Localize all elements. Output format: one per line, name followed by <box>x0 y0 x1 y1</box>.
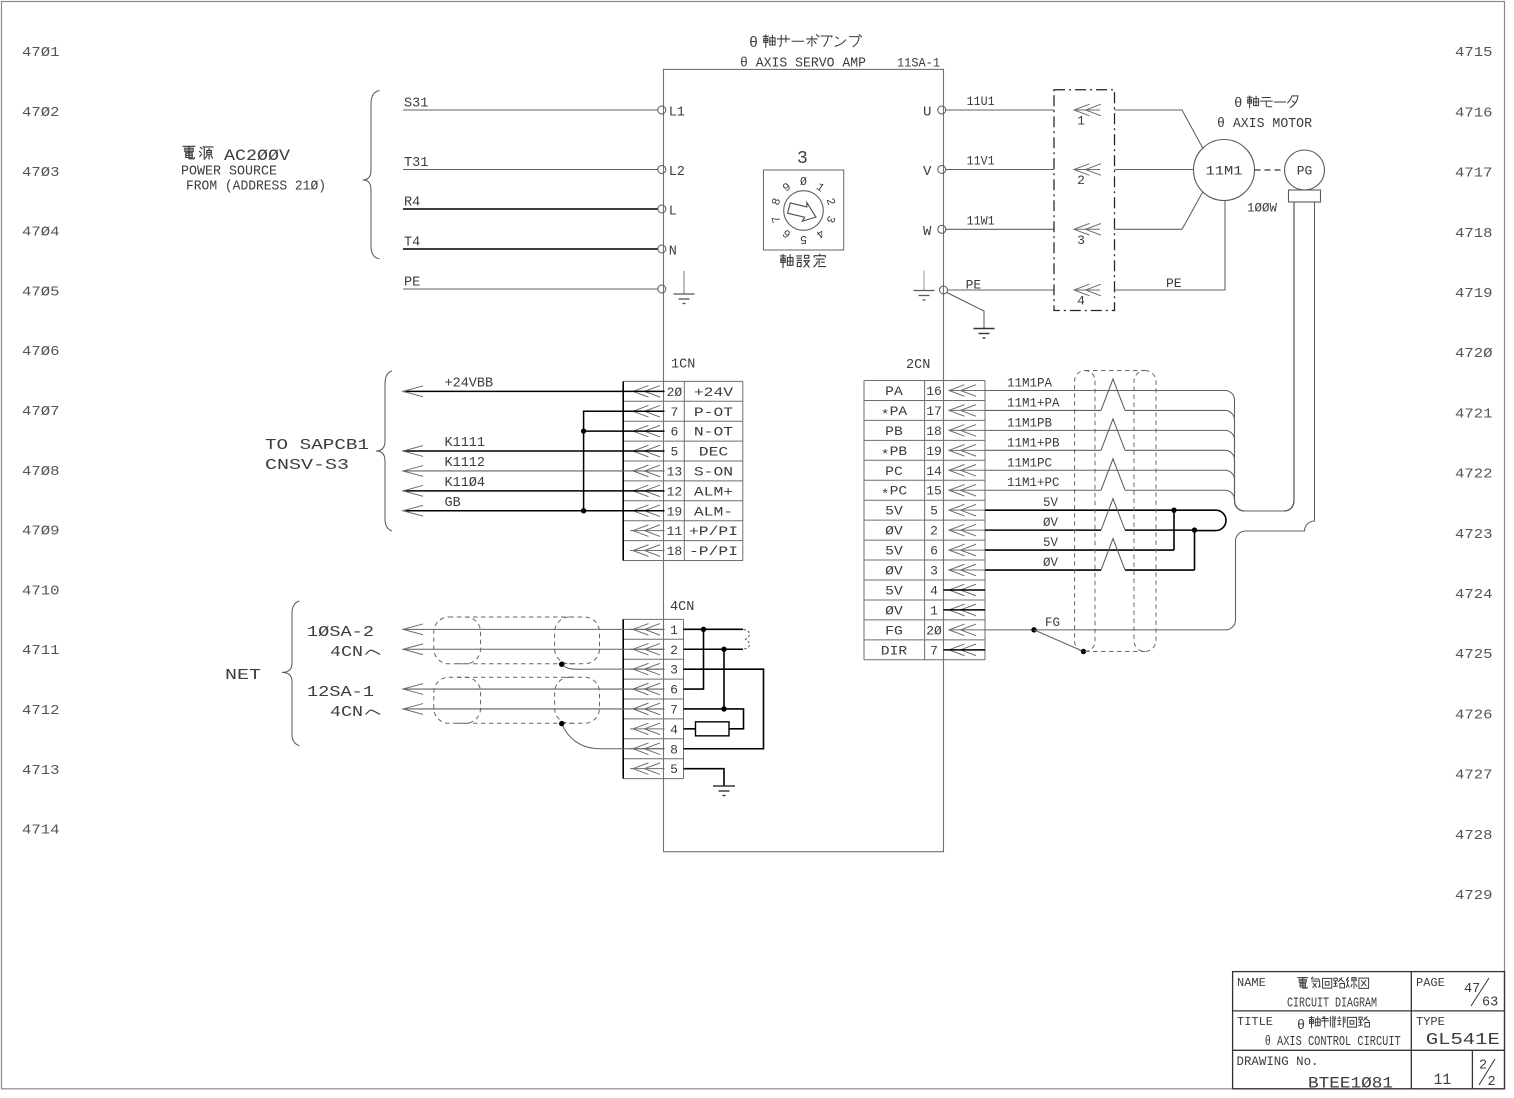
terminating resistor <box>696 722 730 736</box>
ground symbol at amp input PE <box>674 271 695 304</box>
svg-text:TO SAPCB1: TO SAPCB1 <box>265 437 369 454</box>
svg-text:POWER SOURCE: POWER SOURCE <box>181 165 277 180</box>
svg-text:θ: θ <box>1297 1019 1305 1034</box>
terminal N <box>658 245 666 253</box>
svg-text:AC2ØØV: AC2ØØV <box>224 147 291 165</box>
shield pair1 drain to pin3 <box>562 665 665 670</box>
1CN pin 13 S-ON <box>630 464 733 479</box>
wire NET pair1 line B <box>403 648 665 650</box>
svg-text:1: 1 <box>670 623 678 638</box>
wire pin2 continuation <box>684 648 744 650</box>
svg-text:TITLE: TITLE <box>1237 1015 1273 1029</box>
loop pin3 to pin8 <box>684 669 764 749</box>
svg-text:4: 4 <box>670 722 678 737</box>
rotary switch label axis setting <box>780 254 793 267</box>
svg-text:4728: 4728 <box>1455 828 1493 844</box>
svg-text:Ø: Ø <box>800 176 807 189</box>
svg-text:4723: 4723 <box>1455 527 1493 543</box>
wire NET pair2 line A <box>403 688 665 690</box>
svg-text:GL541E: GL541E <box>1426 1030 1500 1049</box>
wire NET pair1 line A <box>403 628 665 630</box>
wire PE to motor connector <box>948 289 1055 291</box>
4CN pin 6 <box>630 683 678 698</box>
2CN pin 2 ØV <box>885 524 985 539</box>
svg-text:5V: 5V <box>885 583 903 598</box>
shield pair2 dot <box>559 721 564 726</box>
svg-text:ALM+: ALM+ <box>694 484 733 499</box>
svg-text:47Ø4: 47Ø4 <box>22 225 60 241</box>
2CN pin 7 DIR <box>881 643 985 658</box>
svg-text:3: 3 <box>670 663 678 678</box>
svg-text:4713: 4713 <box>22 763 60 779</box>
junction dot pin7 <box>721 706 726 711</box>
ground connection from PE terminal <box>947 293 984 329</box>
svg-text:TYPE: TYPE <box>1416 1015 1445 1029</box>
svg-text:11: 11 <box>667 524 683 539</box>
title block TITLE cell <box>1237 1015 1401 1050</box>
svg-text:1CN: 1CN <box>671 358 695 373</box>
svg-text:L1: L1 <box>669 106 685 121</box>
svg-text:θ AXIS CONTROL CIRCUIT: θ AXIS CONTROL CIRCUIT <box>1265 1035 1401 1050</box>
wire K1111 from 1CN <box>403 450 665 452</box>
label 10SA-2 4CN <box>307 624 380 661</box>
motor label Japanese theta-axis motor <box>1234 96 1298 112</box>
svg-text:4721: 4721 <box>1455 406 1493 422</box>
svg-text:ØV: ØV <box>1043 516 1059 530</box>
shield pair1 dot <box>559 662 564 667</box>
svg-text:47Ø2: 47Ø2 <box>22 105 60 121</box>
svg-text:2CN: 2CN <box>906 358 930 373</box>
svg-text:4711: 4711 <box>22 643 60 659</box>
svg-text:11M1PA: 11M1PA <box>1007 376 1053 390</box>
svg-text:11M1+PA: 11M1+PA <box>1007 396 1060 410</box>
svg-text:472Ø: 472Ø <box>1455 346 1493 362</box>
terminal PE left with ground <box>658 285 666 293</box>
title block PAGE cell <box>1416 976 1498 1011</box>
svg-text:5: 5 <box>930 504 938 519</box>
svg-text:63: 63 <box>1482 996 1498 1011</box>
NET cable shield pair2 <box>434 677 600 723</box>
svg-text:3: 3 <box>797 149 808 169</box>
svg-text:7: 7 <box>670 702 678 717</box>
svg-text:2: 2 <box>1488 1075 1496 1090</box>
wire NET pair2 line B <box>403 708 665 710</box>
encoder cable shield dashed <box>1075 371 1156 652</box>
4CN pin 8 <box>630 742 678 757</box>
svg-text:PC: PC <box>885 464 903 479</box>
twisted pair symbols <box>1101 379 1125 570</box>
servo amp box 11SA-1 <box>664 69 944 851</box>
junction dot pin1 <box>701 627 706 632</box>
NET cable shield pair1 <box>434 617 600 664</box>
svg-text:47Ø1: 47Ø1 <box>22 45 60 61</box>
svg-text:47Ø5: 47Ø5 <box>22 284 60 300</box>
svg-text:CIRCUIT DIAGRAM: CIRCUIT DIAGRAM <box>1287 997 1377 1012</box>
svg-text:11M1+PC: 11M1+PC <box>1007 476 1060 490</box>
svg-text:CNSV-S3: CNSV-S3 <box>265 457 349 474</box>
svg-text:+24V: +24V <box>694 385 733 400</box>
svg-text:7: 7 <box>930 643 938 658</box>
svg-text:4717: 4717 <box>1455 166 1493 182</box>
wire connector to motor W phase <box>1115 192 1204 230</box>
svg-text:1ØØW: 1ØØW <box>1247 201 1277 216</box>
svg-text:S-ON: S-ON <box>694 464 733 479</box>
svg-text:2Ø: 2Ø <box>926 623 942 638</box>
svg-text:4726: 4726 <box>1455 707 1493 723</box>
svg-text:17: 17 <box>926 404 942 419</box>
svg-text:V: V <box>923 164 932 180</box>
junction dot N-OT <box>581 428 586 433</box>
svg-text:47Ø3: 47Ø3 <box>22 165 60 181</box>
svg-text:19: 19 <box>926 444 942 459</box>
terminal L <box>658 205 666 213</box>
jumper pin2 to pin7 <box>723 649 725 709</box>
svg-text:NAME: NAME <box>1237 976 1266 990</box>
svg-text:47Ø6: 47Ø6 <box>22 344 60 360</box>
svg-text:NET: NET <box>225 667 261 684</box>
svg-text:W: W <box>923 224 932 240</box>
svg-text:15: 15 <box>926 484 942 499</box>
4CN pin 4 <box>630 722 678 737</box>
1CN pin 7 P-OT <box>630 405 733 420</box>
svg-text:PE: PE <box>404 276 420 291</box>
svg-text:4CN: 4CN <box>330 644 363 661</box>
1CN pin 19 ALM- <box>630 504 733 519</box>
svg-text:ØV: ØV <box>1043 556 1059 570</box>
svg-text:FG: FG <box>1045 616 1060 630</box>
svg-text:θ: θ <box>1234 96 1242 112</box>
wire K11Ø4 from 1CN <box>403 490 665 492</box>
motor connector pin 1 <box>1074 104 1101 128</box>
wire T31 to amp <box>403 169 658 171</box>
1CN pin 11 +P/PI <box>630 524 738 539</box>
2CN pin 4 5V <box>885 583 985 598</box>
svg-text:4712: 4712 <box>22 703 60 719</box>
svg-text:16: 16 <box>926 384 942 399</box>
svg-text:2Ø: 2Ø <box>667 385 683 400</box>
svg-text:11W1: 11W1 <box>967 213 995 228</box>
svg-text:K1112: K1112 <box>445 456 486 471</box>
svg-text:11: 11 <box>1434 1071 1452 1089</box>
svg-text:4710: 4710 <box>22 583 60 599</box>
wire connector to motor U phase <box>1115 110 1204 149</box>
svg-text:5V: 5V <box>885 504 903 519</box>
svg-text:6: 6 <box>670 425 678 440</box>
2CN pin 19 *PB <box>881 444 985 463</box>
svg-text:1ØSA-2: 1ØSA-2 <box>307 624 374 641</box>
wire T4 to amp <box>403 248 658 250</box>
wire PE to amp <box>403 288 658 290</box>
svg-text:4715: 4715 <box>1455 45 1493 61</box>
4CN pin 3 <box>630 663 678 678</box>
wire K1112 from 1CN <box>403 470 665 472</box>
svg-text:FG: FG <box>885 623 903 638</box>
title block <box>1233 972 1505 1089</box>
svg-text:2: 2 <box>670 643 678 658</box>
svg-text:4727: 4727 <box>1455 768 1493 784</box>
motor connector pin 3 <box>1074 224 1101 248</box>
wire pin4 to resistor <box>684 728 696 730</box>
1CN pin 12 ALM+ <box>630 484 733 499</box>
svg-text:11V1: 11V1 <box>967 154 995 169</box>
wire connector to motor PE <box>1115 201 1226 290</box>
connector 1CN table <box>623 381 743 560</box>
1CN pin 6 N-OT <box>630 425 733 440</box>
svg-text:θ: θ <box>749 35 758 52</box>
svg-text:11M1: 11M1 <box>1206 164 1243 179</box>
wire S31 to amp <box>403 109 658 111</box>
encoder PG circle <box>1285 150 1325 190</box>
svg-text:5V: 5V <box>1043 536 1059 550</box>
wire P-OT jumper <box>584 411 665 511</box>
svg-text:ØV: ØV <box>885 524 903 539</box>
svg-text:6: 6 <box>930 544 938 559</box>
svg-text:4722: 4722 <box>1455 467 1493 483</box>
shield connection dot <box>1081 649 1086 654</box>
junction dot FG <box>1031 627 1036 632</box>
svg-text:47Ø8: 47Ø8 <box>22 464 60 480</box>
brace TO SAPCB1 <box>376 371 392 531</box>
2CN pin 1 ØV <box>885 603 985 618</box>
jumper pin1 to pin6 <box>684 629 704 689</box>
svg-text:4714: 4714 <box>22 823 60 839</box>
svg-text:FROM (ADDRESS 21Ø): FROM (ADDRESS 21Ø) <box>186 180 326 195</box>
svg-text:47Ø7: 47Ø7 <box>22 404 60 420</box>
svg-text:2: 2 <box>930 524 938 539</box>
wire N-OT jumper <box>584 430 665 432</box>
junction dot ALM- <box>581 508 586 513</box>
title block TYPE cell <box>1416 1015 1500 1049</box>
title block sheet 2/2 <box>1479 1059 1496 1091</box>
1CN pin 2Ø +24V <box>630 385 733 400</box>
svg-text:L: L <box>669 205 677 220</box>
svg-text:5: 5 <box>800 232 807 245</box>
wire pin1 continuation with break <box>684 628 744 630</box>
svg-text:PG: PG <box>1297 164 1313 179</box>
svg-text:θ AXIS MOTOR: θ AXIS MOTOR <box>1217 117 1312 132</box>
svg-text:47Ø9: 47Ø9 <box>22 524 60 540</box>
4CN pin 1 <box>630 623 678 638</box>
svg-text:S31: S31 <box>404 97 428 112</box>
2CN pin 6 5V <box>885 544 985 559</box>
4CN pin 7 <box>630 702 678 717</box>
svg-text:DRAWING No.: DRAWING No. <box>1237 1055 1319 1069</box>
svg-text:+24VBB: +24VBB <box>445 376 494 391</box>
svg-text:5V: 5V <box>885 544 903 559</box>
svg-text:4718: 4718 <box>1455 226 1493 242</box>
svg-text:11M1PC: 11M1PC <box>1007 456 1052 470</box>
wire connector to motor V phase <box>1115 169 1194 171</box>
svg-text:P-OT: P-OT <box>694 405 733 420</box>
wire R4 to amp <box>403 208 658 210</box>
ground symbol left of PE terminal <box>914 271 935 301</box>
junction dot 5V <box>1171 507 1176 512</box>
4CN pin 5 <box>630 762 678 777</box>
title block NAME cell <box>1237 976 1377 1012</box>
svg-text:5: 5 <box>670 445 678 460</box>
svg-text:12: 12 <box>667 484 683 499</box>
2CN pin 2Ø FG <box>885 623 985 638</box>
2CN pin 5 5V <box>885 504 985 519</box>
junction dot 0V <box>1192 527 1197 532</box>
svg-text:3: 3 <box>1077 233 1085 248</box>
svg-text:1: 1 <box>1077 114 1085 129</box>
motor connector pin 2 <box>1074 164 1101 188</box>
svg-text:5V: 5V <box>1043 496 1059 510</box>
rotary switch dial digits <box>770 176 837 245</box>
right margin line numbers 4715-4729 <box>1455 45 1493 904</box>
wire pin5 to ground <box>684 769 725 786</box>
svg-text:R4: R4 <box>404 196 420 211</box>
ground symbol below PE <box>974 329 995 339</box>
svg-text:PAGE: PAGE <box>1416 976 1445 990</box>
shield pair2 drain to pin8 <box>562 724 665 749</box>
svg-text:-P/PI: -P/PI <box>689 544 738 559</box>
svg-text:1: 1 <box>930 603 938 618</box>
svg-text:ØV: ØV <box>885 603 903 618</box>
terminal L2 <box>658 166 666 174</box>
svg-text:7: 7 <box>670 405 678 420</box>
encoder terminal box <box>1289 190 1321 202</box>
svg-text:T31: T31 <box>404 156 428 171</box>
wire +24VBB from 1CN <box>403 390 665 392</box>
motor 11M1 circle <box>1194 140 1255 201</box>
jumper 5V pin5 to pin6 <box>1173 510 1175 550</box>
svg-text:DIR: DIR <box>881 643 908 658</box>
svg-text:K11Ø4: K11Ø4 <box>445 476 486 491</box>
svg-text:4CN: 4CN <box>670 600 694 615</box>
svg-text:8: 8 <box>670 742 678 757</box>
brace NET <box>282 601 299 746</box>
cable break squiggle <box>744 629 750 649</box>
svg-text:4724: 4724 <box>1455 587 1493 603</box>
junction dot pin2 <box>721 647 726 652</box>
title block DRAWING No cell <box>1237 1055 1394 1093</box>
rotary switch arrow pointing to 3 <box>786 197 820 225</box>
svg-text:U: U <box>923 105 931 121</box>
svg-text:19: 19 <box>667 504 683 519</box>
svg-text:4719: 4719 <box>1455 286 1493 302</box>
motor connector pin 4 <box>1074 284 1101 308</box>
svg-text:12SA-1: 12SA-1 <box>307 684 374 701</box>
motor connector dash-dot box <box>1054 90 1115 311</box>
svg-text:4CN: 4CN <box>330 704 363 721</box>
power source label <box>181 146 326 194</box>
rotary switch S1 body <box>763 170 843 250</box>
label TO SAPCB1 CNSV-S3 <box>265 437 369 474</box>
svg-text:18: 18 <box>667 544 683 559</box>
svg-text:11U1: 11U1 <box>967 94 995 109</box>
2CN pin 3 ØV <box>885 564 985 579</box>
2CN pin 17 *PA <box>881 404 985 423</box>
svg-text:N: N <box>669 245 677 260</box>
svg-text:DEC: DEC <box>699 445 729 460</box>
power source brace <box>363 91 380 259</box>
1CN pin 5 DEC <box>630 445 728 460</box>
svg-text:L2: L2 <box>669 165 685 180</box>
svg-text:K1111: K1111 <box>445 436 486 451</box>
svg-text:11M1PB: 11M1PB <box>1007 416 1053 430</box>
terminal L1 <box>658 106 666 114</box>
1CN pin 18 -P/PI <box>630 544 738 559</box>
svg-text:N-OT: N-OT <box>694 425 733 440</box>
svg-text:+P/PI: +P/PI <box>689 524 738 539</box>
svg-text:3: 3 <box>930 564 938 579</box>
svg-text:2: 2 <box>1077 173 1085 188</box>
svg-text:BTEE1Ø81: BTEE1Ø81 <box>1308 1075 1393 1093</box>
svg-text:PA: PA <box>885 384 903 399</box>
2CN pin 16 PA <box>885 384 985 399</box>
4CN pin 2 <box>630 643 678 658</box>
svg-text:ALM-: ALM- <box>694 504 733 519</box>
svg-text:PB: PB <box>885 424 903 439</box>
2CN pin 14 PC <box>885 464 985 479</box>
label 12SA-1 4CN <box>307 684 380 721</box>
svg-text:GB: GB <box>445 496 461 511</box>
svg-text:4: 4 <box>930 583 938 598</box>
svg-text:11M1+PB: 11M1+PB <box>1007 436 1060 450</box>
svg-text:11SA-1: 11SA-1 <box>897 57 940 71</box>
dashed shaft link motor to encoder <box>1255 169 1285 171</box>
svg-text:13: 13 <box>667 464 683 479</box>
svg-text:4729: 4729 <box>1455 888 1493 904</box>
svg-text:T4: T4 <box>404 236 420 251</box>
svg-text:4716: 4716 <box>1455 105 1493 121</box>
connector 4CN table <box>623 619 683 778</box>
ground symbol 4CN pin5 <box>713 786 735 796</box>
FG drain to cable shield <box>1034 630 1084 652</box>
svg-text:4725: 4725 <box>1455 647 1493 663</box>
wire GB from 1CN <box>403 510 665 512</box>
svg-text:18: 18 <box>926 424 942 439</box>
2CN pin 15 *PC <box>881 484 985 503</box>
svg-text:14: 14 <box>926 464 942 479</box>
svg-text:ØV: ØV <box>885 564 903 579</box>
svg-text:6: 6 <box>670 683 678 698</box>
svg-text:PE: PE <box>1166 276 1182 291</box>
svg-text:5: 5 <box>670 762 678 777</box>
svg-text:2: 2 <box>1479 1059 1487 1074</box>
left margin line numbers 4701-4714 <box>22 45 60 838</box>
jumper 0V pin2 to pin3 <box>1194 530 1196 570</box>
wire pin7 to resistor <box>684 709 744 729</box>
svg-text:4: 4 <box>1077 294 1085 309</box>
connector 2CN table <box>864 381 985 660</box>
2CN pin 18 PB <box>885 424 985 439</box>
servo amp title Japanese: theta-axis servo amp <box>749 35 862 52</box>
